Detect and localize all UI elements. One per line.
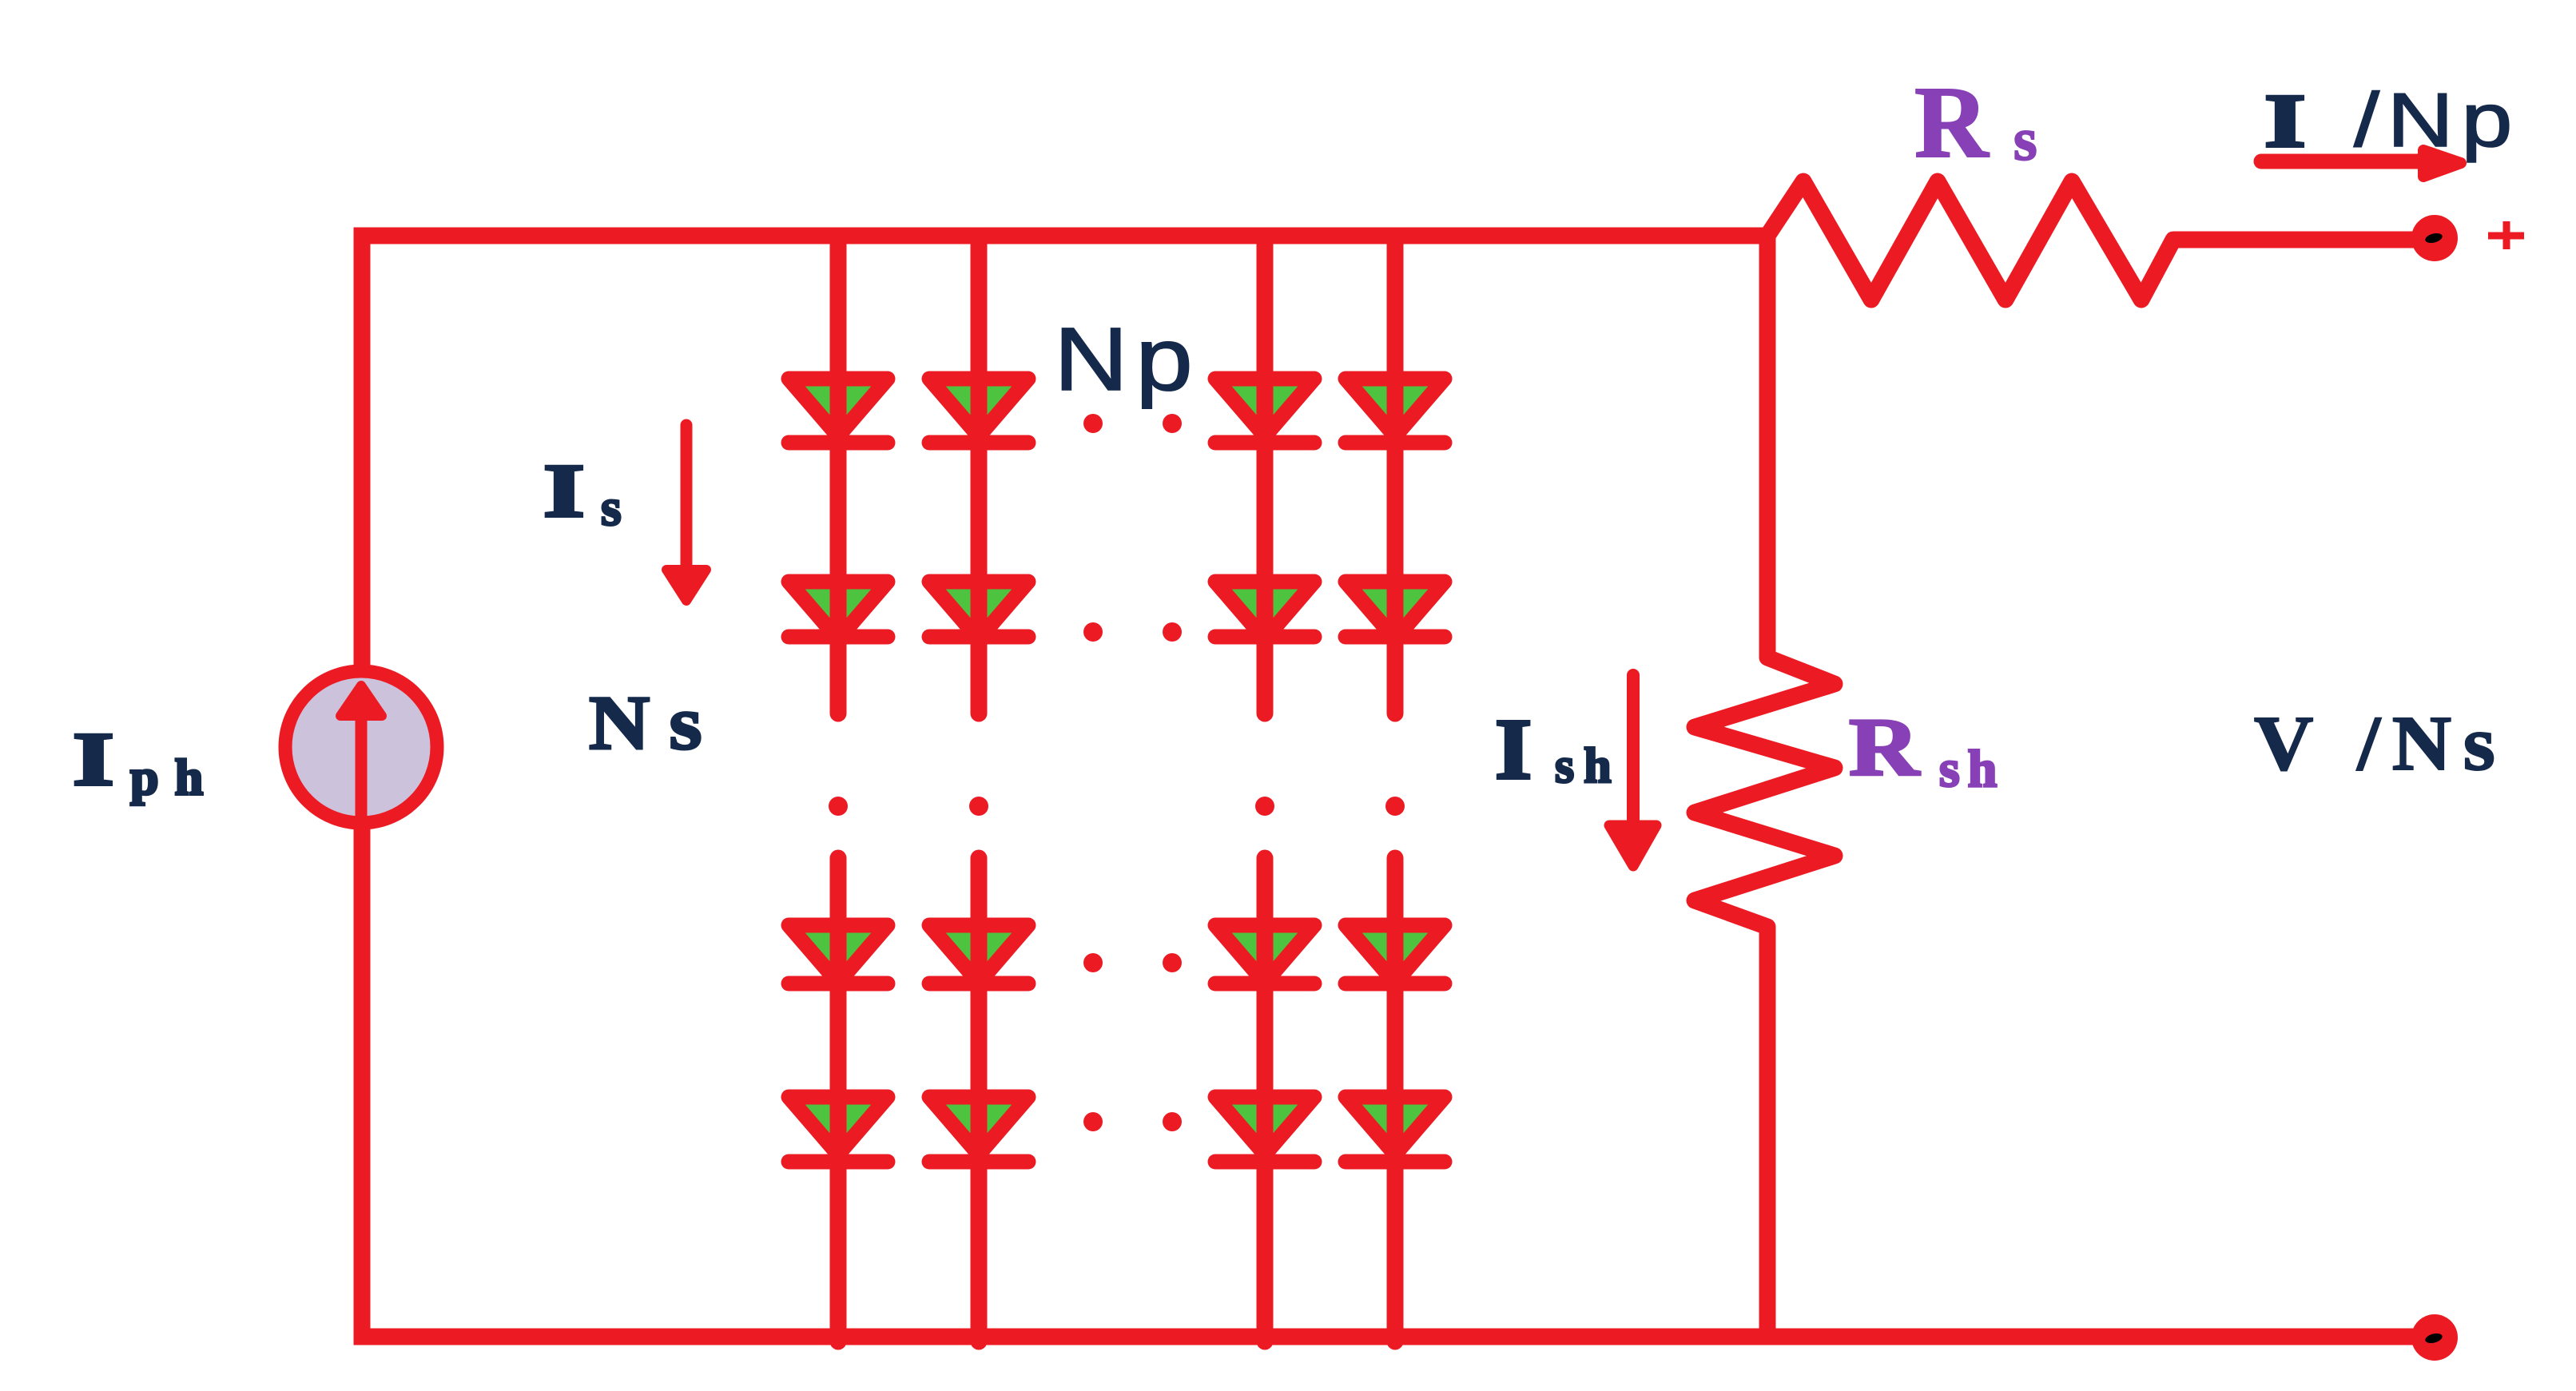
svg-text:s: s (601, 479, 622, 537)
diode D12 (row 1, column 2) (929, 379, 1028, 443)
diode D42 (row 4, column 2) (929, 1097, 1028, 1162)
wire: bottom rail, left rail and top rail of the cell (362, 236, 2435, 1337)
node: series continuation dot of column 1 (829, 797, 848, 816)
svg-text:ph: ph (130, 749, 219, 805)
svg-text:s: s (2013, 106, 2037, 173)
diode D41 (row 4, column 1) (789, 1097, 888, 1162)
wire: diode column 2 lower segment (971, 858, 988, 1341)
node: series continuation dot of column 2 (969, 797, 988, 816)
node: parallel continuation dots of row 2 (1083, 622, 1182, 642)
node: series continuation dot of column 4 (1385, 797, 1405, 816)
current source Iph (circle with upward arrow) (285, 671, 437, 823)
wire: diode column 3 upper segment (1257, 236, 1274, 713)
svg-text:R: R (1914, 66, 1990, 179)
wire: diode column 2 upper segment (971, 236, 988, 713)
node: parallel continuation dots of row 1 (1083, 414, 1182, 433)
diode D31 (row 3, column 1) (789, 925, 888, 984)
svg-text:sh: sh (1555, 739, 1621, 793)
svg-text:R: R (1849, 701, 1920, 793)
svg-text:I: I (2264, 78, 2306, 162)
wire: diode column 4 lower segment (1387, 858, 1404, 1341)
svg-text:Ns: Ns (589, 680, 722, 765)
node: parallel continuation dots of row 4 (1083, 1112, 1182, 1131)
wire: series string current arrow for Is (666, 425, 706, 601)
svg-text:I: I (1495, 701, 1532, 797)
diode D24 (row 2, column 4) (1346, 582, 1445, 639)
diode D43 (row 4, column 3) (1215, 1097, 1314, 1162)
wire: output current arrow for I/Np (2261, 150, 2461, 177)
resistor Rsh (shunt resistor branch with zigzag) (1695, 236, 1835, 1336)
diode D11 (row 1, column 1) (789, 379, 888, 443)
node: positive output terminal (2411, 215, 2458, 261)
svg-text:I: I (543, 448, 585, 532)
diode D44 (row 4, column 4) (1346, 1097, 1445, 1162)
diode D14 (row 1, column 4) (1346, 379, 1445, 443)
wire: shunt current arrow for Ish (1609, 675, 1656, 866)
wire: diode column 1 lower segment (830, 858, 847, 1341)
resistor Rs (series resistor zigzag) (1767, 181, 2429, 300)
svg-text:Np: Np (1054, 309, 1200, 409)
diode D21 (row 2, column 1) (789, 582, 888, 639)
diode D32 (row 3, column 2) (929, 925, 1028, 984)
diode D23 (row 2, column 3) (1215, 582, 1314, 639)
svg-text:I: I (73, 717, 114, 801)
svg-text:/Np: /Np (2354, 77, 2520, 163)
wire: diode column 1 upper segment (830, 236, 847, 713)
node: plus polarity mark at positive terminal (2488, 221, 2524, 249)
diode D13 (row 1, column 3) (1215, 379, 1314, 443)
diode D22 (row 2, column 2) (929, 582, 1028, 639)
svg-text:sh: sh (1939, 740, 2005, 798)
diode D34 (row 3, column 4) (1346, 925, 1445, 984)
node: parallel continuation dots of row 3 (1083, 953, 1182, 972)
diode D33 (row 3, column 3) (1215, 925, 1314, 984)
node: series continuation dot of column 3 (1255, 797, 1274, 816)
svg-text:V /Ns: V /Ns (2254, 699, 2506, 786)
wire: diode column 4 upper segment (1387, 236, 1404, 713)
wire: diode column 3 lower segment (1257, 858, 1274, 1341)
node: negative output terminal (2411, 1314, 2458, 1361)
